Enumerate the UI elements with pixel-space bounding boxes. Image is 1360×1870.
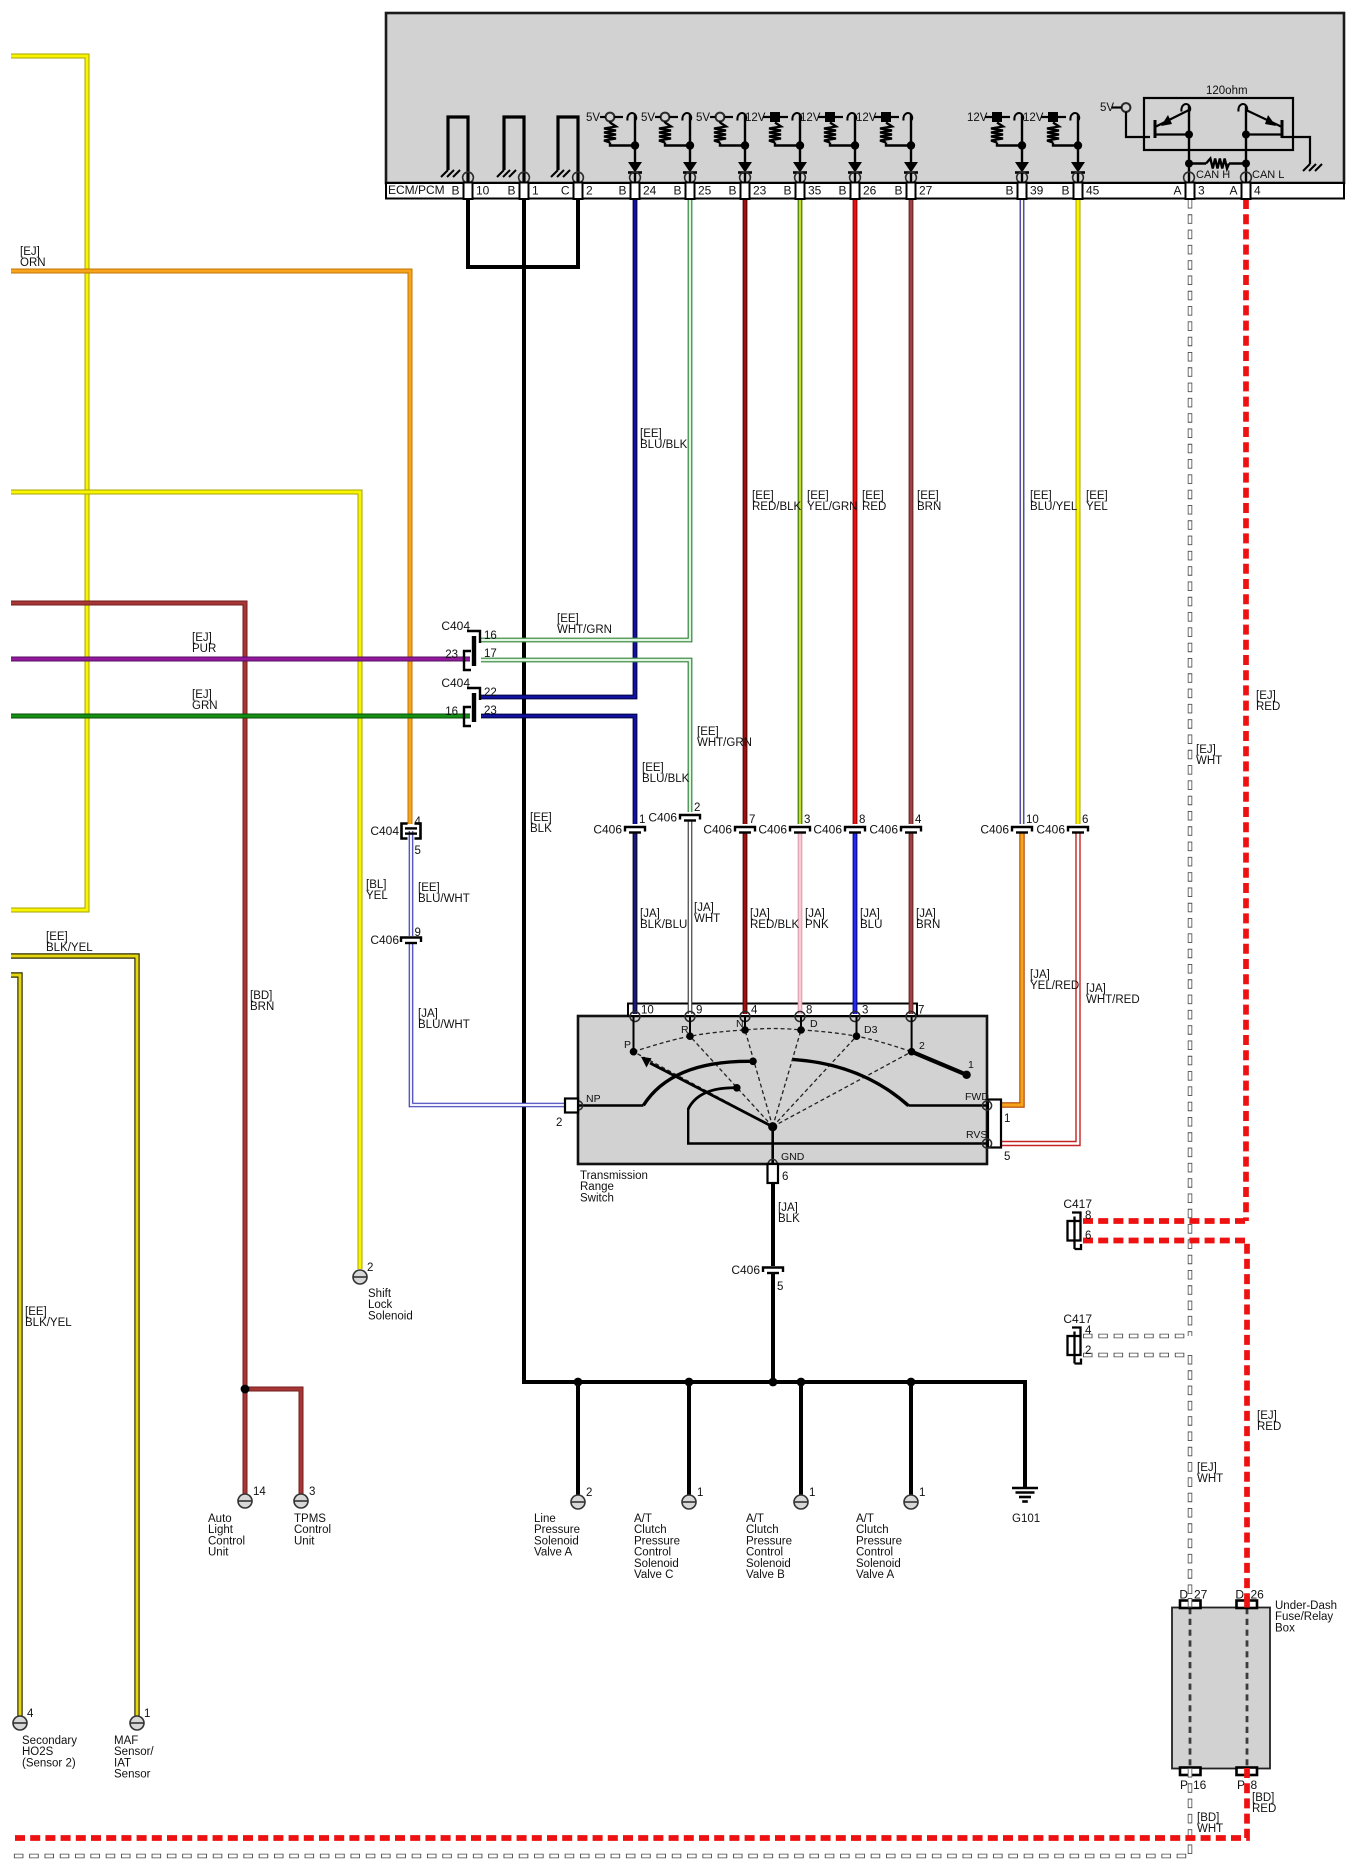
switch FWD wiper arc <box>793 1059 909 1105</box>
svg-text:Valve C: Valve C <box>634 1569 673 1581</box>
svg-text:C406: C406 <box>731 1263 760 1277</box>
wire stub CAN H at D27 <box>1188 1598 1193 1608</box>
wire [JA] RED/BLK from C406 pin 7 to switch pin 4 <box>743 833 748 1014</box>
svg-text:6: 6 <box>1082 814 1088 826</box>
svg-text:[EJ]: [EJ] <box>1197 1462 1217 1474</box>
svg-text:C406: C406 <box>1036 823 1065 837</box>
svg-text:C: C <box>561 184 570 198</box>
ground (CAN transceiver) <box>1303 164 1310 171</box>
wire [EJ] ORN from left to C404 pin 4 <box>11 271 410 824</box>
connector symbol at (635,829) <box>625 827 645 832</box>
svg-text:2: 2 <box>367 1262 373 1274</box>
svg-text:[EJ]: [EJ] <box>1196 744 1216 756</box>
svg-text:G101: G101 <box>1012 1513 1040 1525</box>
connector symbol at (773,1269.5) <box>763 1268 783 1273</box>
wire [BD] BRN branch to TPMS control unit <box>245 1389 301 1494</box>
pull-up resistor for ECM pin x=800 <box>769 123 781 143</box>
diode for ECM pin x=690 <box>683 162 697 173</box>
pin circle for ECM pin x=800 <box>795 172 806 183</box>
connector symbol at (745,829) <box>735 827 755 832</box>
wire [BD] RED from P8 down and left <box>10 1768 1247 1838</box>
svg-text:WHT/RED: WHT/RED <box>1086 994 1140 1006</box>
svg-text:B: B <box>1061 184 1069 198</box>
svg-text:23: 23 <box>484 705 497 717</box>
svg-text:3: 3 <box>1198 184 1205 198</box>
svg-text:BLK: BLK <box>778 1213 800 1225</box>
wire ECM C2 ground black <box>576 199 580 267</box>
removable link hook for ECM pin x=855 <box>847 113 856 120</box>
ECM pin B45 <box>1074 183 1083 200</box>
svg-text:Pressure: Pressure <box>856 1535 902 1547</box>
svg-text:C417: C417 <box>1063 1312 1092 1326</box>
svg-text:16: 16 <box>484 630 497 642</box>
removable link hook for ECM pin x=690 <box>682 113 691 120</box>
connector symbol at (474,650.0) <box>467 631 480 643</box>
wire [JA] BLU from C406 pin 8 to switch pin 3 <box>853 833 858 1014</box>
svg-text:RED: RED <box>1257 1421 1281 1433</box>
svg-text:12V: 12V <box>967 112 988 124</box>
ECM pin B26 <box>851 183 860 200</box>
wire [JA] BLK/BLU from C406 pin 1 to switch pin 10 <box>633 833 638 1014</box>
svg-text:C404: C404 <box>441 676 470 690</box>
internal wire for ECM pin x=690 <box>689 115 691 162</box>
wire [EJ] WHT from C417 pin 4 <box>1083 1334 1190 1339</box>
svg-text:B: B <box>451 184 459 198</box>
svg-text:5V: 5V <box>696 112 710 124</box>
svg-text:RED: RED <box>1256 701 1280 713</box>
svg-text:Range: Range <box>580 1181 614 1193</box>
pull-up resistor for ECM pin x=635 <box>604 123 616 143</box>
svg-text:[EE]: [EE] <box>25 1306 47 1318</box>
wire [JA] PNK from C406 pin 3 to switch pin 8 <box>798 833 803 1014</box>
svg-text:Valve A: Valve A <box>856 1569 894 1581</box>
svg-text:[EJ]: [EJ] <box>192 632 212 644</box>
ECM pin B35 <box>796 183 805 200</box>
junction for ECM pin x=911 <box>907 141 915 149</box>
svg-text:[BD]: [BD] <box>1252 1792 1274 1804</box>
svg-text:PNK: PNK <box>805 919 829 931</box>
svg-text:WHT: WHT <box>1197 1823 1223 1835</box>
connector symbol at (1022,829) <box>1012 827 1032 832</box>
ECM pin A3 <box>1186 183 1195 200</box>
svg-text:24: 24 <box>643 184 657 198</box>
svg-text:C406: C406 <box>703 823 732 837</box>
svg-text:10: 10 <box>476 184 490 198</box>
svg-text:P: P <box>1180 1778 1188 1792</box>
svg-text:5: 5 <box>415 845 421 857</box>
svg-text:YEL: YEL <box>1086 501 1108 513</box>
pin circle for ECM pin x=1022 <box>1017 172 1028 183</box>
svg-text:BLU/BLK: BLU/BLK <box>640 439 688 451</box>
svg-text:WHT: WHT <box>694 913 720 925</box>
svg-text:BLU/WHT: BLU/WHT <box>418 893 470 905</box>
pin circle for ECM pin x=468 <box>463 172 474 183</box>
svg-text:A/T: A/T <box>856 1513 874 1525</box>
svg-text:2: 2 <box>556 1117 562 1129</box>
wire [JA] BLK from C406 pin 5 to ground splice bus <box>771 1273 775 1382</box>
svg-text:Box: Box <box>1275 1622 1295 1634</box>
svg-text:IAT: IAT <box>114 1757 131 1769</box>
switch FWD contact line <box>909 1104 988 1106</box>
svg-text:5: 5 <box>777 1281 783 1293</box>
wire [BD] BRN from left down to control units <box>11 603 245 1494</box>
wire [EJ] RED from C417 pin 6 down to fuse box D26 <box>1083 1241 1247 1608</box>
wire ECM B10 ground black <box>466 199 470 267</box>
svg-text:WHT/GRN: WHT/GRN <box>557 624 612 636</box>
junction for ECM pin x=855 <box>851 141 859 149</box>
Under-Dash Fuse/Relay Box <box>1172 1608 1270 1769</box>
internal wire for ECM pin x=1022 <box>1021 115 1023 162</box>
svg-text:Transmission: Transmission <box>580 1170 648 1182</box>
CAN transceiver block with 120ohm terminating resistor <box>1144 98 1293 150</box>
svg-text:BLU/WHT: BLU/WHT <box>418 1019 470 1031</box>
pull-up resistor for ECM pin x=1078 <box>1047 123 1059 143</box>
ECM pin B27 <box>907 183 916 200</box>
junction for ECM pin x=1022 <box>1018 141 1026 149</box>
fuse box internal path D27-P16 <box>1189 1608 1192 1768</box>
fuse box pin P16 <box>1180 1768 1201 1776</box>
svg-text:Solenoid: Solenoid <box>368 1310 413 1322</box>
diode for ECM pin x=911 <box>904 162 918 173</box>
wire [JA] YEL/RED from C406 pin 10 to switch FWD pin 1 <box>998 833 1022 1105</box>
ECM pin B10 <box>464 183 473 200</box>
wire stub CAN L at D26 <box>1244 1597 1250 1608</box>
svg-text:[EJ]: [EJ] <box>20 246 40 258</box>
svg-text:Shift: Shift <box>368 1288 392 1300</box>
svg-text:8: 8 <box>859 814 865 826</box>
svg-text:12V: 12V <box>1023 112 1044 124</box>
wire to A/T clutch pressure control solenoid valve B pin 1 <box>799 1382 803 1495</box>
junction ground bus / solenoid valve C <box>685 1378 694 1387</box>
wire [EJ] RED from C417 pin 8 junction <box>1083 1218 1246 1224</box>
svg-text:P: P <box>624 1039 631 1051</box>
svg-text:BRN: BRN <box>250 1001 274 1013</box>
svg-text:1: 1 <box>639 814 645 826</box>
svg-text:CAN H: CAN H <box>1196 169 1230 181</box>
connector symbol at (800,829) <box>790 827 810 832</box>
svg-text:BLK/YEL: BLK/YEL <box>46 942 93 954</box>
svg-text:Control: Control <box>294 1524 331 1536</box>
svg-text:[EE]: [EE] <box>807 490 829 502</box>
wire [EJ] WHT (CAN H) from A3 down to C417 pin 4 <box>1188 199 1193 1336</box>
svg-text:Clutch: Clutch <box>856 1524 889 1536</box>
junction for ECM pin x=745 <box>741 141 749 149</box>
switch contact D <box>800 1016 802 1030</box>
svg-text:17: 17 <box>484 648 497 660</box>
svg-text:23: 23 <box>753 184 767 198</box>
wire [EE] BRN from B27 to C406 pin 4 <box>909 199 914 824</box>
svg-text:[JA]: [JA] <box>916 908 936 920</box>
ECM/PCM connector pin row <box>386 183 1344 199</box>
pull-up resistor for ECM pin x=1022 <box>991 123 1003 143</box>
svg-text:Control: Control <box>856 1547 893 1559</box>
svg-text:Pressure: Pressure <box>634 1535 680 1547</box>
svg-text:25: 25 <box>698 184 712 198</box>
wire [EE] WHT/GRN from C404 pin 17 down to C406 pin 2 <box>481 660 690 812</box>
ECM pin B24 <box>631 183 640 200</box>
svg-text:A/T: A/T <box>746 1513 764 1525</box>
svg-text:Light: Light <box>208 1524 234 1536</box>
svg-text:22: 22 <box>484 687 497 699</box>
connector symbol at (1075,1230.75) <box>1072 1213 1081 1221</box>
wire [JA] WHT/RED from C406 pin 6 to switch RVS pin 5 <box>998 833 1078 1144</box>
svg-text:4: 4 <box>1254 184 1261 198</box>
switch RVS contact path <box>688 1108 987 1144</box>
wire [EE] BLU/BLK from B24 down to C404 pin 22 <box>481 199 635 697</box>
A/T Clutch Pressure Control Solenoid Valve A terminal pin 1 <box>904 1495 918 1509</box>
switch contact R <box>689 1016 691 1036</box>
diode for ECM pin x=745 <box>738 162 752 173</box>
svg-text:26: 26 <box>1251 1588 1265 1602</box>
junction ground bus / line pressure solenoid <box>574 1378 583 1387</box>
pin circle for ECM pin x=524 <box>519 172 530 183</box>
svg-text:[JA]: [JA] <box>860 908 880 920</box>
svg-text:[EE]: [EE] <box>642 762 664 774</box>
svg-text:[EE]: [EE] <box>530 812 552 824</box>
svg-text:1: 1 <box>968 1059 974 1071</box>
svg-text:P: P <box>1237 1778 1245 1792</box>
pin circle for ECM pin x=855 <box>850 172 861 183</box>
svg-text:[EJ]: [EJ] <box>1256 690 1276 702</box>
svg-text:[BL]: [BL] <box>366 879 386 891</box>
svg-text:6: 6 <box>782 1171 788 1183</box>
svg-text:R: R <box>681 1024 689 1036</box>
svg-text:PUR: PUR <box>192 643 216 655</box>
svg-text:[JA]: [JA] <box>750 908 770 920</box>
svg-text:BLK/BLU: BLK/BLU <box>640 919 687 931</box>
internal wire for ECM pin x=635 <box>634 115 636 162</box>
wire [BD] WHT from P16 down and left <box>10 1768 1190 1856</box>
internal wire for ECM pin x=745 <box>744 115 746 162</box>
svg-text:B: B <box>618 184 626 198</box>
switch pivot and GND lead <box>768 1122 777 1131</box>
svg-text:D: D <box>1179 1588 1188 1602</box>
svg-text:N: N <box>736 1018 744 1030</box>
svg-text:[EE]: [EE] <box>917 490 939 502</box>
removable link hook for ECM pin x=800 <box>792 113 801 120</box>
svg-text:Secondary: Secondary <box>22 1735 77 1747</box>
removable link hook for ECM pin x=745 <box>737 113 746 120</box>
wire [EE] RED from B26 to C406 pin 8 <box>853 199 858 824</box>
switch contact 1 <box>962 1071 970 1079</box>
wire [EE] BLU/BLK from C404 pin 23 to C406 pin 1 <box>481 716 635 824</box>
switch contact P <box>633 1016 635 1052</box>
svg-text:Line: Line <box>534 1513 556 1525</box>
switch GND pin 6 box <box>768 1164 779 1183</box>
svg-text:A: A <box>1173 184 1181 198</box>
diode for ECM pin x=1022 <box>1015 162 1029 173</box>
fuse box internal path D26-P8 <box>1246 1608 1249 1768</box>
svg-text:D3: D3 <box>864 1024 878 1036</box>
svg-text:C406: C406 <box>869 823 898 837</box>
svg-text:YEL: YEL <box>366 890 388 902</box>
wire [EJ] WHT (CAN H) from C417 pin 2 down to fuse box D27 <box>1188 1355 1193 1607</box>
svg-text:[JA]: [JA] <box>640 908 660 920</box>
Auto Light Control Unit terminal pin 14 <box>238 1494 252 1508</box>
wire [JA] BRN from C406 pin 4 to switch pin 7 <box>909 833 914 1014</box>
connector symbol at (690,817) <box>680 815 700 820</box>
ECM/PCM module box U1 <box>386 13 1344 183</box>
wire [EJ] GRN from left to C404 pin 16 <box>11 714 470 719</box>
wire to line pressure solenoid valve A pin 2 <box>576 1382 580 1495</box>
svg-text:BRN: BRN <box>916 919 940 931</box>
svg-text:[JA]: [JA] <box>1086 983 1106 995</box>
svg-text:1: 1 <box>919 1487 925 1499</box>
wire [EJ] WHT from C417 pin 2 <box>1083 1353 1190 1358</box>
diode for ECM pin x=800 <box>793 162 807 173</box>
wire [EE] BLK from B1 down to splice bus <box>522 199 526 1382</box>
wire [EE] BLK/YEL to MAF/IAT sensor <box>11 956 137 1716</box>
svg-text:3: 3 <box>862 1005 868 1017</box>
fuse box pin P8 <box>1237 1768 1258 1776</box>
ECM pin C2 <box>574 183 583 200</box>
junction for ECM pin x=690 <box>686 141 694 149</box>
svg-text:1: 1 <box>144 1708 150 1720</box>
switch wiper arc from NP line <box>643 1061 753 1105</box>
svg-text:[EE]: [EE] <box>418 882 440 894</box>
svg-text:B: B <box>507 184 515 198</box>
svg-text:C404: C404 <box>370 824 399 838</box>
svg-text:1: 1 <box>697 1487 703 1499</box>
svg-text:8: 8 <box>1085 1210 1091 1222</box>
wire [EE] BLK/YEL to secondary HO2S <box>11 975 20 1716</box>
svg-text:A: A <box>1229 184 1237 198</box>
svg-text:B: B <box>1005 184 1013 198</box>
svg-text:[JA]: [JA] <box>805 908 825 920</box>
ground (chassis) for ECM pin x=524 <box>497 170 504 177</box>
svg-text:HO2S: HO2S <box>22 1746 54 1758</box>
svg-text:Pressure: Pressure <box>534 1524 580 1536</box>
svg-text:CAN L: CAN L <box>1252 169 1284 181</box>
ECM internal ground wire for pin x=468 <box>448 117 468 183</box>
svg-text:RED/BLK: RED/BLK <box>750 919 800 931</box>
ECM pin A4 <box>1242 183 1251 200</box>
switch contact 2 <box>911 1016 913 1052</box>
svg-text:C406: C406 <box>593 823 622 837</box>
svg-text:1: 1 <box>532 184 539 198</box>
svg-text:BLK/YEL: BLK/YEL <box>25 1317 72 1329</box>
svg-text:10: 10 <box>641 1005 654 1017</box>
svg-text:BLU: BLU <box>860 919 882 931</box>
internal wire for ECM pin x=800 <box>799 115 801 162</box>
pull-up resistor for ECM pin x=911 <box>880 123 892 143</box>
svg-text:Control: Control <box>634 1547 671 1559</box>
svg-text:C406: C406 <box>980 823 1009 837</box>
svg-text:[EE]: [EE] <box>1086 490 1108 502</box>
wire [JA] BLU/WHT from C406 pin 9 to switch NP pin 2 <box>411 943 566 1105</box>
svg-text:[JA]: [JA] <box>418 1008 438 1020</box>
svg-text:WHT/GRN: WHT/GRN <box>697 737 752 749</box>
svg-text:Solenoid: Solenoid <box>746 1558 791 1570</box>
svg-text:C406: C406 <box>648 811 677 825</box>
svg-text:2: 2 <box>586 1487 592 1499</box>
svg-text:4: 4 <box>1085 1325 1092 1337</box>
ground (chassis) for ECM pin x=578 <box>551 170 558 177</box>
svg-text:Fuse/Relay: Fuse/Relay <box>1275 1611 1333 1623</box>
svg-text:Clutch: Clutch <box>746 1524 779 1536</box>
svg-text:[EE]: [EE] <box>46 931 68 943</box>
ECM internal ground wire for pin x=524 <box>504 117 524 183</box>
removable link hook for ECM pin x=1022 <box>1014 113 1023 120</box>
svg-text:2: 2 <box>586 184 593 198</box>
connector symbol at (855,829) <box>845 827 865 832</box>
svg-text:[EJ]: [EJ] <box>192 689 212 701</box>
fuse box pin D27 <box>1180 1601 1201 1609</box>
internal wire for ECM pin x=911 <box>910 115 912 162</box>
svg-text:ORN: ORN <box>20 257 46 269</box>
wire to A/T clutch pressure control solenoid valve C pin 1 <box>687 1382 691 1495</box>
junction ground bus / switch ground <box>769 1378 778 1387</box>
svg-text:1: 1 <box>1004 1113 1010 1125</box>
svg-text:12V: 12V <box>856 112 877 124</box>
wire [BL] YEL from left to shift lock solenoid <box>11 492 360 1269</box>
switch contact N <box>744 1016 746 1030</box>
svg-text:7: 7 <box>918 1005 924 1017</box>
wire [EE] RED/BLK from B23 to C406 pin 7 <box>743 199 748 824</box>
wire [EE] BLU/WHT from C404 pin 5 to C406 pin 9 <box>409 831 414 936</box>
removable link hook for ECM pin x=635 <box>627 113 636 120</box>
svg-text:[EE]: [EE] <box>862 490 884 502</box>
svg-text:2: 2 <box>919 1040 925 1052</box>
svg-text:Under-Dash: Under-Dash <box>1275 1600 1337 1612</box>
svg-text:2: 2 <box>1085 1345 1091 1357</box>
pull-up resistor for ECM pin x=855 <box>824 123 836 143</box>
svg-text:YEL/RED: YEL/RED <box>1030 980 1079 992</box>
svg-text:4: 4 <box>415 816 422 828</box>
wire yellow (from other sheet, top left) <box>11 56 87 910</box>
switch NP pin 2 box <box>565 1099 578 1113</box>
svg-text:Solenoid: Solenoid <box>534 1535 579 1547</box>
svg-text:7: 7 <box>749 814 755 826</box>
ground (chassis) for ECM pin x=468 <box>441 170 448 177</box>
Line Pressure Solenoid Valve A terminal pin 2 <box>571 1495 585 1509</box>
fuse box pin D26 <box>1237 1601 1258 1609</box>
svg-text:8: 8 <box>806 1005 812 1017</box>
svg-text:[EE]: [EE] <box>1030 490 1052 502</box>
wire [JA] WHT from C406 pin 2 to switch pin 9 <box>688 821 693 1014</box>
svg-text:Control: Control <box>208 1535 245 1547</box>
wire [EJ] RED (CAN L) from A4 down to C417 pin 8 <box>1243 199 1249 1221</box>
svg-text:9: 9 <box>415 927 421 939</box>
junction ground bus / solenoid valve B <box>797 1378 806 1387</box>
junction for ECM pin x=1078 <box>1074 141 1082 149</box>
pin circle for ECM pin x=690 <box>685 172 696 183</box>
svg-text:12V: 12V <box>745 112 766 124</box>
switch NP contact line <box>578 1104 643 1106</box>
wire to A/T clutch pressure control solenoid valve A pin 1 <box>909 1382 913 1495</box>
pin circle for ECM pin x=578 <box>573 172 584 183</box>
svg-text:26: 26 <box>863 184 877 198</box>
svg-text:Auto: Auto <box>208 1513 232 1525</box>
svg-text:6: 6 <box>1085 1230 1091 1242</box>
ground G101 <box>1012 1487 1038 1490</box>
svg-text:16: 16 <box>445 706 458 718</box>
junction for ECM pin x=800 <box>796 141 804 149</box>
svg-text:WHT: WHT <box>1196 755 1222 767</box>
ECM pin B1 <box>520 183 529 200</box>
svg-text:3: 3 <box>804 814 810 826</box>
svg-text:23: 23 <box>445 649 458 661</box>
junction for ECM pin x=635 <box>631 141 639 149</box>
connector symbol at (1075,1345.5) <box>1072 1328 1081 1336</box>
TPMS Control Unit terminal pin 3 <box>294 1494 308 1508</box>
svg-text:NP: NP <box>586 1093 601 1105</box>
A/T Clutch Pressure Control Solenoid Valve B terminal pin 1 <box>794 1495 808 1509</box>
switch wiper small arc (RVS) <box>688 1088 737 1109</box>
svg-text:RED: RED <box>1252 1803 1276 1815</box>
Secondary HO2S terminal pin 4 <box>13 1716 27 1730</box>
Shift Lock Solenoid terminal pin 2 <box>353 1270 367 1284</box>
